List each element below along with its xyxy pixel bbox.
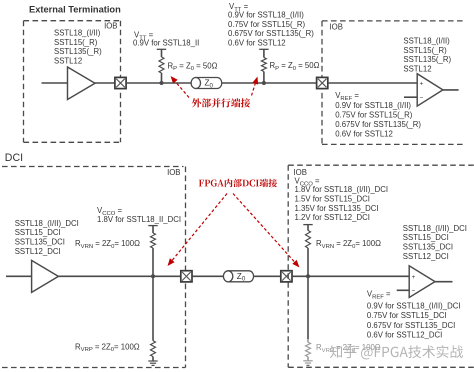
VCCO terminal bar (left) [148,225,157,227]
receiver labels (bottom-right) [403,224,467,261]
svg-text:0.675V for SSTL135(_R): 0.675V for SSTL135(_R) [335,120,421,129]
svg-text:SSTL18_(I/II): SSTL18_(I/II) [54,28,101,37]
svg-text:SSTL15_DCI: SSTL15_DCI [15,228,61,237]
svg-text:SSTL12_DCI: SSTL12_DCI [15,247,61,256]
svg-text:+: + [412,274,416,281]
svg-text:1.8V for SSTL18_(I/II)_DCI: 1.8V for SSTL18_(I/II)_DCI [295,185,389,194]
svg-text:0.6V for SSTL12_DCI: 0.6V for SSTL12_DCI [367,331,442,340]
VTT terminal bar (right RP) [259,48,268,50]
wire: node D down to RVRP right [307,276,309,342]
svg-text:0.675V for SSTL135(_R): 0.675V for SSTL135(_R) [228,29,314,38]
receiver op-amp (top) [417,74,443,106]
pad (top-left IOB) [115,77,126,88]
node A (junction dot) [160,81,164,85]
svg-text:SSTL15(_R): SSTL15(_R) [54,38,98,47]
svg-text:0.75V for SSTL15(_R): 0.75V for SSTL15(_R) [228,20,306,29]
wire: VCCO bar to RVRN left [152,226,154,233]
pad (bottom-left IOB) [181,271,192,282]
svg-text:0.9V for SSTL18_(I/II)_DCI: 0.9V for SSTL18_(I/II)_DCI [367,302,461,311]
svg-text:0.75V for SSTL15(_R): 0.75V for SSTL15(_R) [335,111,413,120]
svg-text:IOB: IOB [167,168,180,177]
svg-text:SSTL18_(I/II)_DCI: SSTL18_(I/II)_DCI [15,219,79,228]
wire: RVRP right to ground [307,357,309,361]
ground (left DCI) [148,360,157,362]
transmission line Z0 (bottom) [228,271,254,282]
svg-text:SSTL135(_R): SSTL135(_R) [403,55,451,64]
VTT terminal bar (left RP) [157,48,166,50]
wire: pad1 to transmission line [126,82,191,84]
wire: pad2 to receiver [328,82,417,84]
svg-text:0.9V for SSTL18_(I/II): 0.9V for SSTL18_(I/II) [335,101,411,110]
wire: resistor RP1 to node A [161,73,163,83]
wire: Z0 to node B [222,82,317,84]
resistor RVRP (left) [151,341,156,357]
wire: RVRN left to node C [152,248,154,276]
node D (junction dot) [306,274,310,278]
svg-text:+: + [420,81,424,88]
svg-text:SSTL12: SSTL12 [54,57,82,66]
red arrow to RP1 [175,82,189,98]
wire: RVRP left to ground [152,357,154,362]
IOB dashed box (bottom-left) [2,166,184,168]
IOB dashed box (top-right) [322,20,463,22]
svg-text:External Termination: External Termination [29,5,121,15]
svg-text:IOB: IOB [104,21,117,30]
driver labels (top-left) [54,28,102,65]
wire: pad4 to node D [292,275,409,277]
wire: RVRN right to node D [307,248,309,276]
svg-text:SSTL15_DCI: SSTL15_DCI [403,233,449,242]
driver buffer (top) [68,67,96,100]
wire: resistor RP2 to node B [263,72,265,84]
svg-text:1.8V for SSTL18_II_DCI: 1.8V for SSTL18_II_DCI [97,215,181,224]
receiver op-amp (bottom) [409,266,435,298]
wire: pad3 to transmission line [192,275,224,277]
svg-text:0.6V for SSTL12: 0.6V for SSTL12 [335,129,393,138]
wire: DCI driver to node C [58,275,180,277]
wire: VCCO bar to RVRN right [307,225,309,231]
IOB dashed box (top-left) [24,20,121,22]
svg-text:SSTL12: SSTL12 [403,65,431,74]
svg-text:1.2V for SSTL12_DCI: 1.2V for SSTL12_DCI [295,213,370,222]
red annotation: FPGA内部DCI端接 [199,180,204,187]
svg-text:1.35V for SSTL135_DCI: 1.35V for SSTL135_DCI [295,204,379,213]
wire: VREF stub (top receiver) [404,96,417,98]
svg-text:SSTL15(_R): SSTL15(_R) [403,46,447,55]
wire: top receiver output [443,89,459,91]
resistor RVRP (right) [306,342,311,356]
ground (right DCI) [303,360,312,362]
wire: VTT bar to resistor RP1 [161,49,163,57]
svg-text:−: − [412,288,416,295]
node B (junction dot) [262,81,266,85]
wire: driver to pad1 [95,82,115,84]
node C (junction dot) [151,274,155,278]
pad (top-right IOB) [317,77,328,88]
wire: VREF stub (bottom receiver) [397,289,410,291]
transmission line Z0 (top) [196,78,222,89]
svg-text:1.5V for SSTL15_DCI: 1.5V for SSTL15_DCI [295,195,370,204]
wire: Z0 bottom to pad4 [254,275,281,277]
red arrow to RP2 [252,84,256,96]
svg-text:0.9V for SSTL18_(I/II): 0.9V for SSTL18_(I/II) [228,10,304,19]
red annotation: 外部并行端接 [192,98,201,107]
svg-text:SSTL135_DCI: SSTL135_DCI [403,243,453,252]
wire: node C down to RVRP left [152,276,154,340]
svg-text:SSTL135_DCI: SSTL135_DCI [15,238,65,247]
red arrow to node C termination [172,194,227,261]
VCCO terminal bar (right) [303,224,312,226]
svg-text:0.75V for SSTL15_DCI: 0.75V for SSTL15_DCI [367,311,447,320]
svg-text:DCI: DCI [5,152,23,164]
svg-text:SSTL18_(I/II)_DCI: SSTL18_(I/II)_DCI [403,224,467,233]
driver labels (bottom-left) [15,219,79,256]
resistor RP2 [261,58,266,72]
red arrow to node D termination [233,194,295,262]
svg-text:SSTL12_DCI: SSTL12_DCI [403,252,449,261]
svg-text:−: − [420,95,424,102]
wire: input to DCI driver [6,275,32,277]
resistor RVRN (right) [306,230,311,248]
svg-text:SSTL18_(I/II): SSTL18_(I/II) [403,36,450,45]
resistor RP1 [159,57,164,73]
wire: bottom receiver output [435,281,453,283]
driver buffer (DCI) [32,260,59,292]
svg-text:0.9V for SSTL18_II: 0.9V for SSTL18_II [133,39,199,48]
watermark 知乎 @FPGA技术实战 [298,339,474,365]
resistor RVRN (left) [151,233,156,248]
receiver labels (top-right) [403,36,451,73]
IOB dashed box (bottom-right) [288,164,474,166]
wire: input to top driver [42,82,68,84]
svg-text:0.6V for SSTL12: 0.6V for SSTL12 [228,38,286,47]
svg-text:IOB: IOB [330,22,343,31]
pad (bottom-right IOB) [281,271,292,282]
svg-text:SSTL135(_R): SSTL135(_R) [54,47,102,56]
svg-text:0.675V for SSTL135_DCI: 0.675V for SSTL135_DCI [367,321,455,330]
wire: VTT bar to resistor RP2 [263,49,265,57]
